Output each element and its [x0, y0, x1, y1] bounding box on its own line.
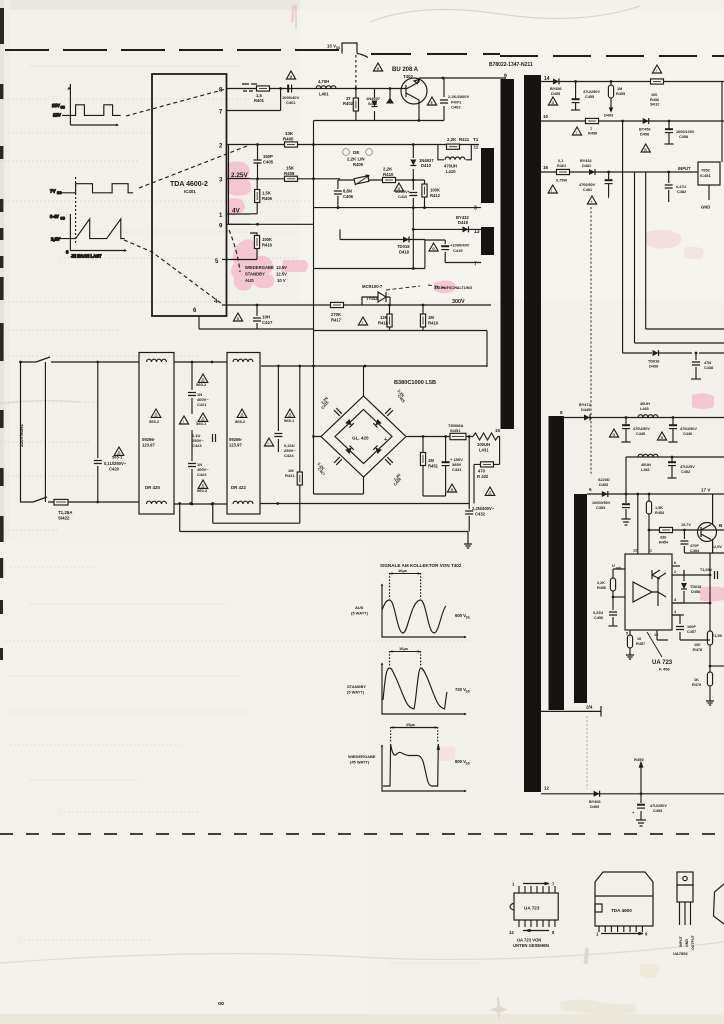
- svg-text:12K: 12K: [380, 315, 388, 320]
- svg-text:SK32: SK32: [650, 103, 660, 107]
- svg-text:C446: C446: [683, 432, 692, 436]
- svg-text:SS: SS: [466, 616, 470, 620]
- svg-text:TDA 4600: TDA 4600: [611, 908, 632, 913]
- svg-text:470UH: 470UH: [444, 164, 457, 169]
- svg-text:330: 330: [660, 536, 666, 540]
- svg-text:L410: L410: [446, 169, 456, 174]
- svg-text:E: E: [431, 101, 433, 105]
- svg-text:INPUT: INPUT: [679, 935, 683, 947]
- svg-text:R436: R436: [650, 98, 659, 102]
- svg-text:R458: R458: [588, 131, 597, 135]
- svg-text:C452: C452: [681, 470, 690, 474]
- svg-text:C405: C405: [263, 160, 274, 165]
- svg-text:T1: T1: [473, 137, 479, 142]
- svg-text:11: 11: [474, 145, 479, 150]
- svg-text:OUTPUT: OUTPUT: [691, 934, 695, 950]
- svg-text:K 456: K 456: [659, 667, 670, 672]
- svg-text:2,2K: 2,2K: [383, 167, 393, 172]
- svg-text:BY456: BY456: [639, 128, 651, 132]
- svg-text:17 V: 17 V: [701, 488, 711, 493]
- svg-text:BY456: BY456: [550, 87, 562, 91]
- svg-text:T1,25A: T1,25A: [58, 510, 73, 515]
- svg-text:GL. 420: GL. 420: [352, 436, 369, 441]
- svg-text:5: 5: [626, 632, 628, 636]
- svg-text:C424: C424: [284, 453, 294, 458]
- svg-text:C402: C402: [451, 105, 461, 110]
- svg-text:B380C1000 L5B: B380C1000 L5B: [394, 380, 436, 386]
- svg-text:D458: D458: [691, 590, 700, 594]
- svg-text:STANDBY: STANDBY: [245, 272, 265, 277]
- svg-text:INPUT: INPUT: [678, 166, 691, 171]
- svg-text:BY406: BY406: [589, 800, 601, 804]
- svg-text:T1,59: T1,59: [712, 634, 722, 638]
- svg-text:470U/50V: 470U/50V: [633, 427, 650, 431]
- svg-text:14: 14: [509, 930, 514, 935]
- svg-text:1000/100V: 1000/100V: [676, 130, 695, 134]
- svg-text:15K: 15K: [286, 166, 295, 171]
- svg-text:UNTEN GESEHEN: UNTEN GESEHEN: [513, 943, 549, 948]
- svg-text:AUS: AUS: [355, 605, 364, 610]
- svg-text:100: 100: [651, 93, 657, 97]
- svg-text:C458: C458: [679, 135, 688, 139]
- svg-text:C431: C431: [452, 467, 462, 472]
- svg-text:D439: D439: [649, 364, 658, 368]
- svg-text:C421: C421: [197, 402, 207, 407]
- svg-text:2/4: 2/4: [586, 705, 593, 710]
- svg-text:12,5V: 12,5V: [712, 545, 722, 549]
- svg-text:R417: R417: [331, 317, 342, 322]
- svg-text:R456: R456: [597, 586, 606, 590]
- svg-text:6: 6: [674, 561, 676, 565]
- svg-text:10: 10: [637, 637, 641, 641]
- svg-text:7V: 7V: [50, 189, 57, 194]
- svg-text:0,22U: 0,22U: [593, 611, 603, 615]
- svg-text:2,2K/2000V: 2,2K/2000V: [448, 94, 469, 99]
- svg-text:D418: D418: [399, 249, 410, 254]
- svg-text:47N: 47N: [704, 361, 711, 365]
- svg-text:4700/50V: 4700/50V: [579, 183, 596, 187]
- svg-text:T1,09V: T1,09V: [700, 568, 713, 572]
- svg-text:560-1: 560-1: [196, 421, 207, 426]
- svg-text:C456: C456: [594, 616, 603, 620]
- svg-text:C493: C493: [653, 809, 662, 813]
- svg-text:10: 10: [543, 114, 549, 119]
- svg-text:TD018: TD018: [397, 244, 410, 249]
- svg-text:!: !: [268, 442, 269, 446]
- svg-text:C453: C453: [596, 506, 605, 510]
- svg-text:GND: GND: [701, 205, 710, 210]
- svg-text:AUS: AUS: [245, 278, 254, 283]
- svg-text:D493: D493: [604, 114, 613, 118]
- svg-text:15 V: 15 V: [327, 44, 336, 49]
- svg-text:4V: 4V: [232, 208, 241, 215]
- svg-text:123.97: 123.97: [229, 443, 242, 448]
- svg-text:1M: 1M: [428, 315, 434, 320]
- svg-text:16µs: 16µs: [399, 646, 409, 651]
- svg-text:STANDBY: STANDBY: [347, 684, 366, 689]
- svg-text:12.5V: 12.5V: [276, 272, 287, 277]
- svg-text:SIGNALE AM KOLLEKTOR VON T402: SIGNALE AM KOLLEKTOR VON T402: [380, 563, 462, 568]
- svg-text:C457: C457: [687, 630, 696, 634]
- svg-text:R419: R419: [428, 320, 439, 325]
- svg-text:R409: R409: [353, 162, 364, 167]
- svg-text:AM.AUFSCHALTUNG: AM.AUFSCHALTUNG: [434, 286, 472, 290]
- svg-text:SI451: SI451: [450, 428, 461, 433]
- svg-text:!: !: [656, 69, 657, 73]
- svg-text:.R478: .R478: [692, 648, 702, 652]
- svg-text:565-2: 565-2: [235, 419, 246, 424]
- svg-text:15: 15: [495, 428, 501, 433]
- svg-text:R412: R412: [430, 193, 441, 198]
- svg-text:565-2: 565-2: [149, 419, 160, 424]
- svg-text:D455: D455: [551, 92, 560, 96]
- svg-text:4,70H: 4,70H: [318, 79, 329, 84]
- svg-text:D419: D419: [458, 220, 469, 225]
- svg-text:0,47U: 0,47U: [676, 185, 686, 189]
- svg-text:15V: 15V: [53, 113, 61, 118]
- svg-text:R455: R455: [634, 757, 644, 762]
- svg-text:100K: 100K: [430, 188, 440, 193]
- svg-text:C454: C454: [690, 549, 700, 553]
- svg-text:0,1: 0,1: [558, 159, 563, 163]
- svg-text:470: 470: [478, 469, 486, 474]
- svg-text:2,2K LIN: 2,2K LIN: [347, 157, 365, 162]
- svg-text:C419: C419: [453, 248, 463, 253]
- svg-text:R455: R455: [616, 92, 625, 96]
- svg-text:R411: R411: [459, 137, 470, 142]
- svg-text:C417: C417: [262, 320, 273, 325]
- svg-text:GND: GND: [685, 939, 689, 947]
- svg-text:+: +: [384, 437, 387, 443]
- svg-text:100K: 100K: [262, 237, 272, 242]
- svg-text:UA 723: UA 723: [652, 660, 673, 666]
- svg-text:2,2K: 2,2K: [597, 581, 605, 585]
- svg-text:R418: R418: [378, 320, 389, 325]
- svg-text:C455: C455: [585, 95, 594, 99]
- svg-text:15,7V: 15,7V: [681, 523, 691, 527]
- svg-text:IC481: IC481: [700, 173, 711, 178]
- svg-text:1M: 1M: [428, 458, 434, 463]
- svg-text:10K: 10K: [285, 131, 294, 136]
- svg-text:!: !: [183, 420, 184, 424]
- svg-text:0,75W: 0,75W: [556, 179, 567, 183]
- svg-text:DR 420: DR 420: [145, 485, 160, 490]
- svg-text:C410: C410: [398, 195, 407, 199]
- svg-text:TD018: TD018: [690, 585, 701, 589]
- svg-text:D458: D458: [640, 132, 649, 136]
- svg-text:R402: R402: [343, 101, 354, 106]
- svg-text:470P: 470P: [690, 544, 699, 548]
- svg-text:R451: R451: [428, 463, 439, 468]
- svg-text:!: !: [551, 189, 552, 193]
- svg-text:DE: DE: [353, 150, 359, 155]
- svg-text:1K: 1K: [694, 678, 699, 682]
- svg-text:R410: R410: [383, 172, 394, 177]
- svg-text:D481: D481: [582, 164, 591, 168]
- svg-text:S220D: S220D: [598, 478, 610, 482]
- svg-text:D493: D493: [590, 805, 599, 809]
- svg-text:D445: D445: [581, 408, 590, 412]
- svg-text:UA7852: UA7852: [673, 951, 688, 956]
- svg-text:T402: T402: [403, 74, 414, 79]
- svg-text:UA 723: UA 723: [524, 906, 540, 911]
- svg-text:SS: SS: [61, 217, 65, 221]
- svg-text:565-1: 565-1: [284, 418, 295, 423]
- svg-text:SS: SS: [466, 690, 470, 694]
- svg-text:C445: C445: [636, 432, 645, 436]
- svg-text:560-2: 560-2: [197, 488, 208, 493]
- svg-text:C432: C432: [475, 511, 486, 516]
- svg-text:R454: R454: [659, 540, 669, 544]
- svg-text:C423: C423: [192, 443, 202, 448]
- svg-text:2,2V: 2,2V: [51, 237, 60, 242]
- svg-text:47U/250V: 47U/250V: [583, 90, 600, 94]
- svg-text:C420: C420: [109, 466, 120, 471]
- svg-text:+1000/40V: +1000/40V: [450, 243, 470, 248]
- svg-text:S402: S402: [368, 101, 378, 106]
- svg-text:SS: SS: [466, 762, 470, 766]
- svg-text:U: U: [612, 564, 615, 568]
- svg-text:R421: R421: [285, 473, 295, 478]
- svg-text:720 V: 720 V: [455, 687, 466, 692]
- svg-text:DR 422: DR 422: [231, 485, 246, 490]
- svg-text:-: -: [338, 430, 340, 436]
- svg-text:(45 WATT): (45 WATT): [350, 760, 370, 765]
- svg-text:565-1: 565-1: [112, 455, 123, 460]
- svg-text:40UH: 40UH: [640, 402, 650, 406]
- svg-text:B78022-1347-N211: B78022-1347-N211: [489, 62, 533, 68]
- svg-text:1,5K: 1,5K: [262, 191, 271, 196]
- svg-text:D410: D410: [421, 163, 432, 168]
- svg-text:12: 12: [633, 549, 637, 553]
- svg-text:!: !: [362, 321, 363, 325]
- svg-text:SS: SS: [61, 106, 65, 110]
- svg-text:3-4V: 3-4V: [50, 214, 59, 219]
- svg-text:13: 13: [474, 229, 480, 235]
- svg-text:13: 13: [654, 633, 658, 637]
- svg-text:(5 WATT): (5 WATT): [351, 611, 369, 616]
- svg-text:UA 723 VON: UA 723 VON: [517, 938, 541, 943]
- svg-text:R461: R461: [557, 164, 566, 168]
- svg-text:SS: SS: [336, 46, 340, 50]
- svg-text:13.5V: 13.5V: [276, 265, 287, 270]
- svg-text:25µs: 25µs: [406, 722, 416, 727]
- svg-text:R408: R408: [284, 171, 295, 176]
- svg-text:10H: 10H: [262, 315, 270, 320]
- svg-text:TD018: TD018: [648, 360, 659, 364]
- svg-text:2,2N/400V~: 2,2N/400V~: [472, 506, 495, 511]
- svg-text:6: 6: [589, 487, 592, 492]
- svg-text:150P: 150P: [263, 154, 273, 159]
- svg-text:100UH: 100UH: [477, 442, 490, 447]
- svg-text:D453: D453: [599, 483, 608, 487]
- svg-text:3: 3: [474, 206, 477, 212]
- svg-text:0,1U/250V~: 0,1U/250V~: [104, 461, 127, 466]
- svg-text:15V: 15V: [52, 103, 60, 108]
- svg-text:L452: L452: [641, 468, 650, 472]
- svg-text:10000/50V: 10000/50V: [592, 501, 611, 505]
- svg-text:7852: 7852: [701, 168, 711, 173]
- svg-text:SI422: SI422: [58, 516, 70, 521]
- svg-text:R406: R406: [262, 196, 273, 201]
- svg-text:09266-: 09266-: [229, 437, 243, 442]
- svg-text:220V/50HZ: 220V/50HZ: [19, 424, 24, 447]
- svg-text:(5 WATT): (5 WATT): [347, 690, 365, 695]
- svg-text:R405: R405: [283, 137, 294, 142]
- svg-text:C401: C401: [286, 100, 296, 105]
- svg-text:2: 2: [674, 570, 676, 574]
- svg-text:C481: C481: [583, 188, 592, 192]
- svg-text:8: 8: [560, 410, 563, 415]
- svg-text:C482: C482: [677, 190, 686, 194]
- svg-text:R416: R416: [262, 242, 273, 247]
- svg-text:123.97: 123.97: [142, 443, 155, 448]
- svg-text:47U/25V: 47U/25V: [680, 465, 695, 469]
- svg-text:JE NACH LAST: JE NACH LAST: [71, 254, 102, 259]
- svg-text:1M: 1M: [617, 87, 622, 91]
- svg-text:1,5K: 1,5K: [655, 506, 663, 510]
- svg-text:8,8N: 8,8N: [343, 189, 352, 194]
- svg-text:R 432: R 432: [477, 474, 489, 479]
- svg-text:C406: C406: [343, 194, 354, 199]
- svg-text:800 V: 800 V: [455, 759, 466, 764]
- svg-text:!: !: [576, 131, 577, 135]
- svg-text:MCR100-7: MCR100-7: [362, 284, 383, 289]
- svg-text:WIEDERGABE: WIEDERGABE: [245, 265, 274, 270]
- svg-text:10 V: 10 V: [277, 278, 286, 283]
- svg-text:R479: R479: [692, 683, 701, 687]
- svg-text:oo: oo: [218, 1001, 224, 1007]
- svg-text:TDA 4600-2: TDA 4600-2: [170, 181, 208, 188]
- svg-text:SS: SS: [57, 191, 62, 195]
- svg-text:100: 100: [694, 643, 700, 647]
- svg-text:3: 3: [674, 598, 676, 602]
- svg-text:09266-: 09266-: [142, 437, 156, 442]
- svg-text:300V: 300V: [452, 299, 465, 305]
- svg-text:BY432: BY432: [580, 159, 592, 163]
- svg-text:47U/250V: 47U/250V: [650, 804, 667, 808]
- svg-text:L445: L445: [640, 407, 649, 411]
- svg-text:16: 16: [543, 165, 549, 170]
- svg-text:L431: L431: [479, 447, 489, 452]
- svg-text:C438: C438: [704, 366, 713, 370]
- svg-text:BU 208 A: BU 208 A: [392, 67, 419, 73]
- svg-text:R401: R401: [254, 98, 265, 103]
- svg-text:L401: L401: [319, 92, 329, 97]
- svg-text:WIEDERGABE: WIEDERGABE: [348, 754, 376, 759]
- svg-text:470U/50V: 470U/50V: [680, 427, 697, 431]
- svg-text:R457: R457: [636, 642, 645, 646]
- svg-text:560-2: 560-2: [196, 382, 207, 387]
- svg-text:BY472: BY472: [579, 403, 591, 407]
- svg-text:600 V: 600 V: [455, 613, 466, 618]
- svg-text:7: 7: [474, 262, 477, 268]
- svg-text:R453: R453: [655, 511, 664, 515]
- svg-text:2.25V: 2.25V: [231, 172, 248, 179]
- svg-text:2,2K: 2,2K: [447, 137, 457, 142]
- svg-text:IC401: IC401: [184, 189, 196, 194]
- svg-text:1: 1: [590, 127, 592, 131]
- svg-text:9: 9: [504, 74, 507, 80]
- svg-text:+: +: [591, 200, 593, 204]
- svg-text:12: 12: [544, 786, 550, 791]
- svg-text:C422: C422: [197, 472, 207, 477]
- svg-text:16µs: 16µs: [398, 568, 408, 573]
- svg-text:100P: 100P: [687, 625, 696, 629]
- svg-text:40UH: 40UH: [641, 463, 651, 467]
- svg-text:270K: 270K: [331, 312, 341, 317]
